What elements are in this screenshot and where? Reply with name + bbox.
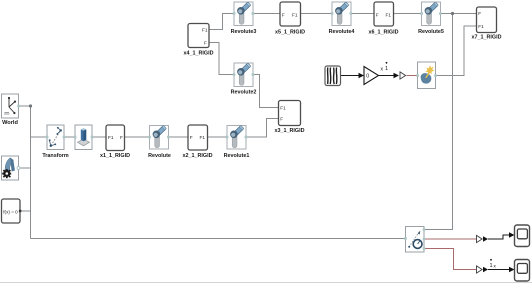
block Revolute1	[224, 125, 250, 159]
wire x5 to Revolute4	[301, 13, 333, 15]
wire vertical bus	[30, 106, 32, 239]
PS lines (dark red)	[407, 76, 477, 270]
svg-text:World: World	[2, 120, 18, 126]
block Solver Configuration f(x)=0	[2, 199, 22, 223]
svg-text:F1: F1	[280, 106, 286, 111]
svg-text:Revolute2: Revolute2	[231, 90, 257, 96]
svg-text:Revolute4: Revolute4	[329, 29, 355, 35]
svg-text:1: 1	[490, 263, 493, 269]
svg-text:F1: F1	[478, 24, 484, 29]
wire x2 to Revolute1	[208, 136, 228, 138]
svg-text:0: 0	[366, 74, 369, 80]
wire x7 F1 to ExtForce F	[436, 26, 477, 76]
wire Brick to x1	[92, 136, 106, 138]
arrowhead into gain	[359, 73, 365, 79]
svg-text:x1_1_RIGID: x1_1_RIGID	[100, 153, 130, 159]
wire World to bus	[19, 105, 31, 107]
svg-text:1: 1	[385, 66, 388, 72]
block World	[2, 94, 20, 126]
svg-text:F1: F1	[200, 135, 206, 140]
block PS-Simulink Converter 2	[477, 266, 489, 273]
wire Transform to Brick	[64, 136, 75, 138]
junction dot revolute5	[451, 12, 454, 15]
svg-text:Revolute1: Revolute1	[224, 153, 250, 159]
signal Gain to converter	[379, 75, 398, 77]
ps wire sensor out1	[424, 238, 476, 240]
svg-text:f(x) = 0: f(x) = 0	[3, 209, 18, 214]
block Mechanism Configuration	[2, 156, 21, 180]
wire Revolute2 to x3 F1	[253, 75, 279, 108]
arrowhead into S-PS converter	[394, 73, 400, 79]
block x2_1_RIGID	[183, 125, 213, 159]
block Revolute	[148, 125, 171, 159]
arrowhead into Scope	[509, 232, 515, 238]
arrowhead into Scope1	[509, 267, 515, 273]
block x4_1_RIGID	[184, 24, 214, 57]
svg-text:F: F	[478, 11, 481, 16]
svg-text:F: F	[204, 41, 207, 46]
block x5_1_RIGID	[275, 2, 305, 36]
svg-text:x6_1_RIGID: x6_1_RIGID	[369, 30, 399, 36]
svg-text:F: F	[190, 135, 193, 140]
block Scope1	[515, 260, 530, 282]
ps wire sensor out2	[424, 249, 476, 270]
block Gain	[364, 67, 379, 85]
wire bus to Transform	[31, 136, 48, 138]
block Scope	[515, 225, 530, 247]
svg-text:x3_1_RIGID: x3_1_RIGID	[275, 128, 305, 134]
svg-text:F1: F1	[108, 135, 114, 140]
block x1_1_RIGID	[100, 125, 130, 159]
svg-text:F: F	[376, 12, 379, 17]
junction dot world bus	[29, 104, 32, 107]
Simulink signal lines (black)	[341, 76, 513, 270]
wire Solver f(x)=0 to bus	[20, 210, 31, 212]
block Transform (Rigid Transform)	[42, 125, 69, 159]
svg-text:x2_1_RIGID: x2_1_RIGID	[183, 153, 213, 159]
block x3_1_RIGID	[275, 101, 305, 134]
label xdot1	[381, 62, 389, 73]
svg-text:F: F	[280, 117, 283, 122]
wire junction down to sensor top port	[424, 14, 453, 230]
block PS-Simulink Converter 1	[477, 235, 489, 242]
signal SignalEditor to Gain	[341, 75, 363, 77]
svg-text:Revolute3: Revolute3	[231, 29, 257, 35]
block Revolute5	[418, 2, 444, 35]
block Revolute3	[231, 2, 257, 35]
wire Revolute3 to x5	[253, 13, 280, 15]
wire MechConfig to bus	[19, 167, 31, 169]
signal conv1 to Scope	[488, 235, 513, 239]
svg-text:F: F	[282, 12, 285, 17]
block x6_1_RIGID	[369, 2, 399, 36]
wire bus bottom to sensor B	[31, 238, 406, 240]
ps wire converter to ExtForce	[407, 75, 418, 77]
block Transform Sensor	[404, 227, 425, 253]
block x7_1_RIGID	[472, 7, 502, 41]
block External Force and Torque	[416, 62, 437, 89]
svg-text:Transform: Transform	[42, 153, 69, 159]
svg-text:F1: F1	[292, 12, 298, 17]
svg-text:F1: F1	[202, 28, 208, 33]
wire Revolute5 to x7 F	[441, 13, 477, 15]
svg-text:x4_1_RIGID: x4_1_RIGID	[184, 51, 214, 57]
label xdot lower	[490, 259, 497, 269]
block Revolute2	[231, 63, 257, 96]
wire Revolute1 to x3 F	[246, 119, 279, 138]
wire Revolute4 to x6	[351, 13, 374, 15]
block Revolute4	[329, 2, 355, 35]
wire x6 to Revolute5	[394, 13, 422, 15]
wire x4 F1 to Revolute3	[209, 14, 234, 30]
signal conv2 to Scope1	[488, 269, 513, 271]
block Simulink-PS Converter	[400, 72, 406, 79]
svg-text:Revolute: Revolute	[148, 153, 171, 159]
svg-text:Revolute5: Revolute5	[418, 29, 444, 35]
svg-text:x5_1_RIGID: x5_1_RIGID	[275, 30, 305, 36]
wire x4 F to Revolute2	[209, 43, 234, 75]
wire Revolute to x2	[169, 136, 189, 138]
svg-text:x7_1_RIGID: x7_1_RIGID	[472, 35, 502, 41]
block Brick (solid transform)	[74, 125, 93, 150]
wire x1 to Revolute	[125, 136, 150, 138]
svg-text:F: F	[120, 135, 123, 140]
svg-text:F1: F1	[386, 12, 392, 17]
bottom screen border	[0, 282, 532, 284]
block Signal Editor	[325, 66, 341, 86]
